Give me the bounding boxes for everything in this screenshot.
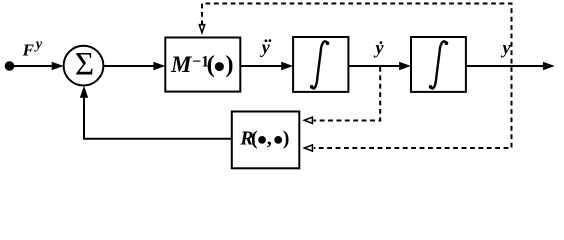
summing junction circle: [64, 46, 104, 86]
arrowhead into summer: [52, 62, 64, 70]
block R box: [232, 112, 299, 169]
wire integrator 2 to output: [466, 65, 544, 67]
integrator 2 box: [411, 37, 466, 92]
label F^y: [22, 37, 43, 60]
label M^-1(bullet): [170, 51, 234, 78]
open arrowhead into M box top: [198, 24, 206, 35]
svg-text:y: y: [374, 38, 385, 58]
arrowhead up into summer: [80, 86, 88, 98]
node F^y input dot: [5, 61, 15, 71]
open arrowhead into R box lower input: [302, 144, 313, 153]
dashed ydot feedback to R upper input: [314, 67, 381, 121]
dashed feedforward loop: M top, across top, down right, into R lower input: [202, 4, 512, 149]
open arrowhead into R box upper input: [302, 116, 313, 125]
svg-text:y: y: [34, 37, 43, 53]
integral sign 2: [429, 41, 449, 88]
svg-text:): ): [225, 51, 233, 78]
integrator 1 box: [293, 37, 348, 92]
arrowhead into M box: [153, 62, 165, 70]
output arrowhead: [543, 62, 555, 70]
wire summer to M box: [103, 65, 154, 67]
svg-text:y: y: [501, 38, 512, 58]
svg-text:): ): [283, 128, 290, 150]
label R(bullet,bullet): [239, 128, 289, 150]
svg-text:Σ: Σ: [75, 47, 94, 83]
integral sign 1: [310, 41, 330, 88]
svg-text:(: (: [251, 128, 258, 150]
block M^-1 box: [165, 38, 240, 92]
svg-text:(: (: [207, 51, 215, 78]
label y double dot: [260, 37, 272, 57]
svg-text:F: F: [22, 41, 35, 60]
wire integrator 1 to integrator 2: [348, 65, 400, 67]
label y dot: [374, 38, 385, 58]
arrowhead into integrator 1: [281, 62, 293, 70]
wire M box to integrator 1: [240, 65, 282, 67]
svg-text:M: M: [170, 52, 193, 77]
wire R box feedback to summer: [84, 98, 232, 139]
svg-text:,: ,: [267, 128, 272, 150]
arrowhead into integrator 2: [399, 62, 411, 70]
wire input to summer: [10, 65, 53, 67]
